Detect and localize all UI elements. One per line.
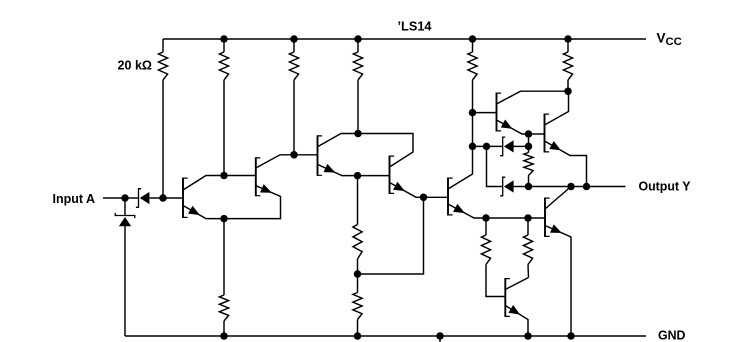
resistor R11	[524, 146, 533, 186]
node Q2 collector / Q3 base	[290, 151, 298, 159]
wire output line	[529, 186, 626, 188]
diode D3	[500, 137, 528, 156]
svg-text:Input A: Input A	[53, 192, 96, 206]
resistor R7	[219, 219, 228, 336]
svg-text:GND: GND	[658, 329, 686, 342]
resistor R8	[353, 176, 362, 274]
transistor Q4	[358, 134, 424, 198]
node Q6/Q7 collector at R6	[564, 87, 572, 95]
resistor R4	[353, 39, 362, 134]
wire D3 row left	[473, 145, 503, 147]
diode D1 input clamp	[115, 198, 135, 336]
wire GND rail	[125, 335, 646, 337]
node R7 at GND rail	[220, 332, 228, 340]
node Q1 collector / Q2 base	[220, 172, 228, 180]
node Q3 emitter / Q4 base	[354, 172, 362, 180]
transistor Q8	[545, 187, 571, 337]
node R2 at VCC rail	[220, 35, 228, 43]
node Q5 collector junction	[469, 143, 477, 151]
node Q1 emitter junction	[220, 215, 228, 223]
node R5 at VCC rail	[469, 35, 477, 43]
node Q6 emitter / Q7 base	[525, 130, 533, 138]
wire Q6 emitter node to D3 row	[528, 134, 530, 146]
diode D4	[500, 177, 528, 196]
transistor Q3	[294, 134, 358, 176]
resistor R12	[353, 274, 362, 336]
wire R5 column to Q6 base node	[472, 113, 474, 147]
node R8 at GND rail	[354, 332, 362, 340]
transistor Q1	[163, 176, 224, 219]
svg-text:20 kΩ: 20 kΩ	[118, 59, 153, 73]
resistor R9	[481, 218, 505, 297]
wire Q5 emitter row	[486, 217, 545, 219]
wire input stub	[103, 197, 125, 199]
node R6 at VCC rail	[564, 35, 572, 43]
transistor Q7	[529, 91, 587, 186]
resistor R5	[468, 39, 477, 113]
node R3 at VCC rail	[290, 35, 298, 43]
node Q8 collector at output	[567, 183, 575, 191]
transistor Q5	[424, 146, 487, 218]
node Q3 collector	[354, 130, 362, 138]
node output left junction	[525, 183, 533, 191]
svg-text:VCC: VCC	[657, 30, 682, 48]
node D3 cathode column	[483, 143, 491, 151]
node R9 top	[482, 214, 490, 222]
resistor R1 20 k-ohm	[158, 39, 167, 198]
diode D2 input series	[125, 189, 163, 208]
node R8 branch to Q4 emitter	[354, 270, 362, 278]
node Q9 emitter at GND rail	[524, 332, 532, 340]
wire GND stub below rail	[439, 336, 441, 342]
node D3 anode	[525, 143, 533, 151]
node Q4 emitter / Q5 base	[420, 194, 428, 202]
svg-text:Output Y: Output Y	[639, 180, 692, 194]
resistor R2	[219, 39, 228, 176]
node Q8 emitter at GND rail	[567, 332, 575, 340]
node GND stub junction	[436, 332, 444, 340]
node R4 at VCC rail	[354, 35, 362, 43]
transistor Q2	[224, 155, 294, 219]
resistor R10	[523, 218, 532, 278]
transistor Q9	[505, 278, 528, 337]
wire Q4 emitter to R8 node	[358, 197, 424, 274]
resistor R3	[289, 39, 298, 155]
wire VCC rail	[163, 38, 646, 40]
node R10 top	[524, 214, 532, 222]
node input A junction	[121, 194, 129, 202]
svg-text:’LS14: ’LS14	[398, 20, 432, 34]
node base of Q1	[159, 194, 167, 202]
wire D4 cathode column	[487, 146, 503, 186]
node Q7 emitter at output	[583, 183, 591, 191]
node Q6 base column	[469, 109, 477, 117]
resistor R6	[563, 39, 572, 91]
transistor Q6	[473, 91, 569, 134]
